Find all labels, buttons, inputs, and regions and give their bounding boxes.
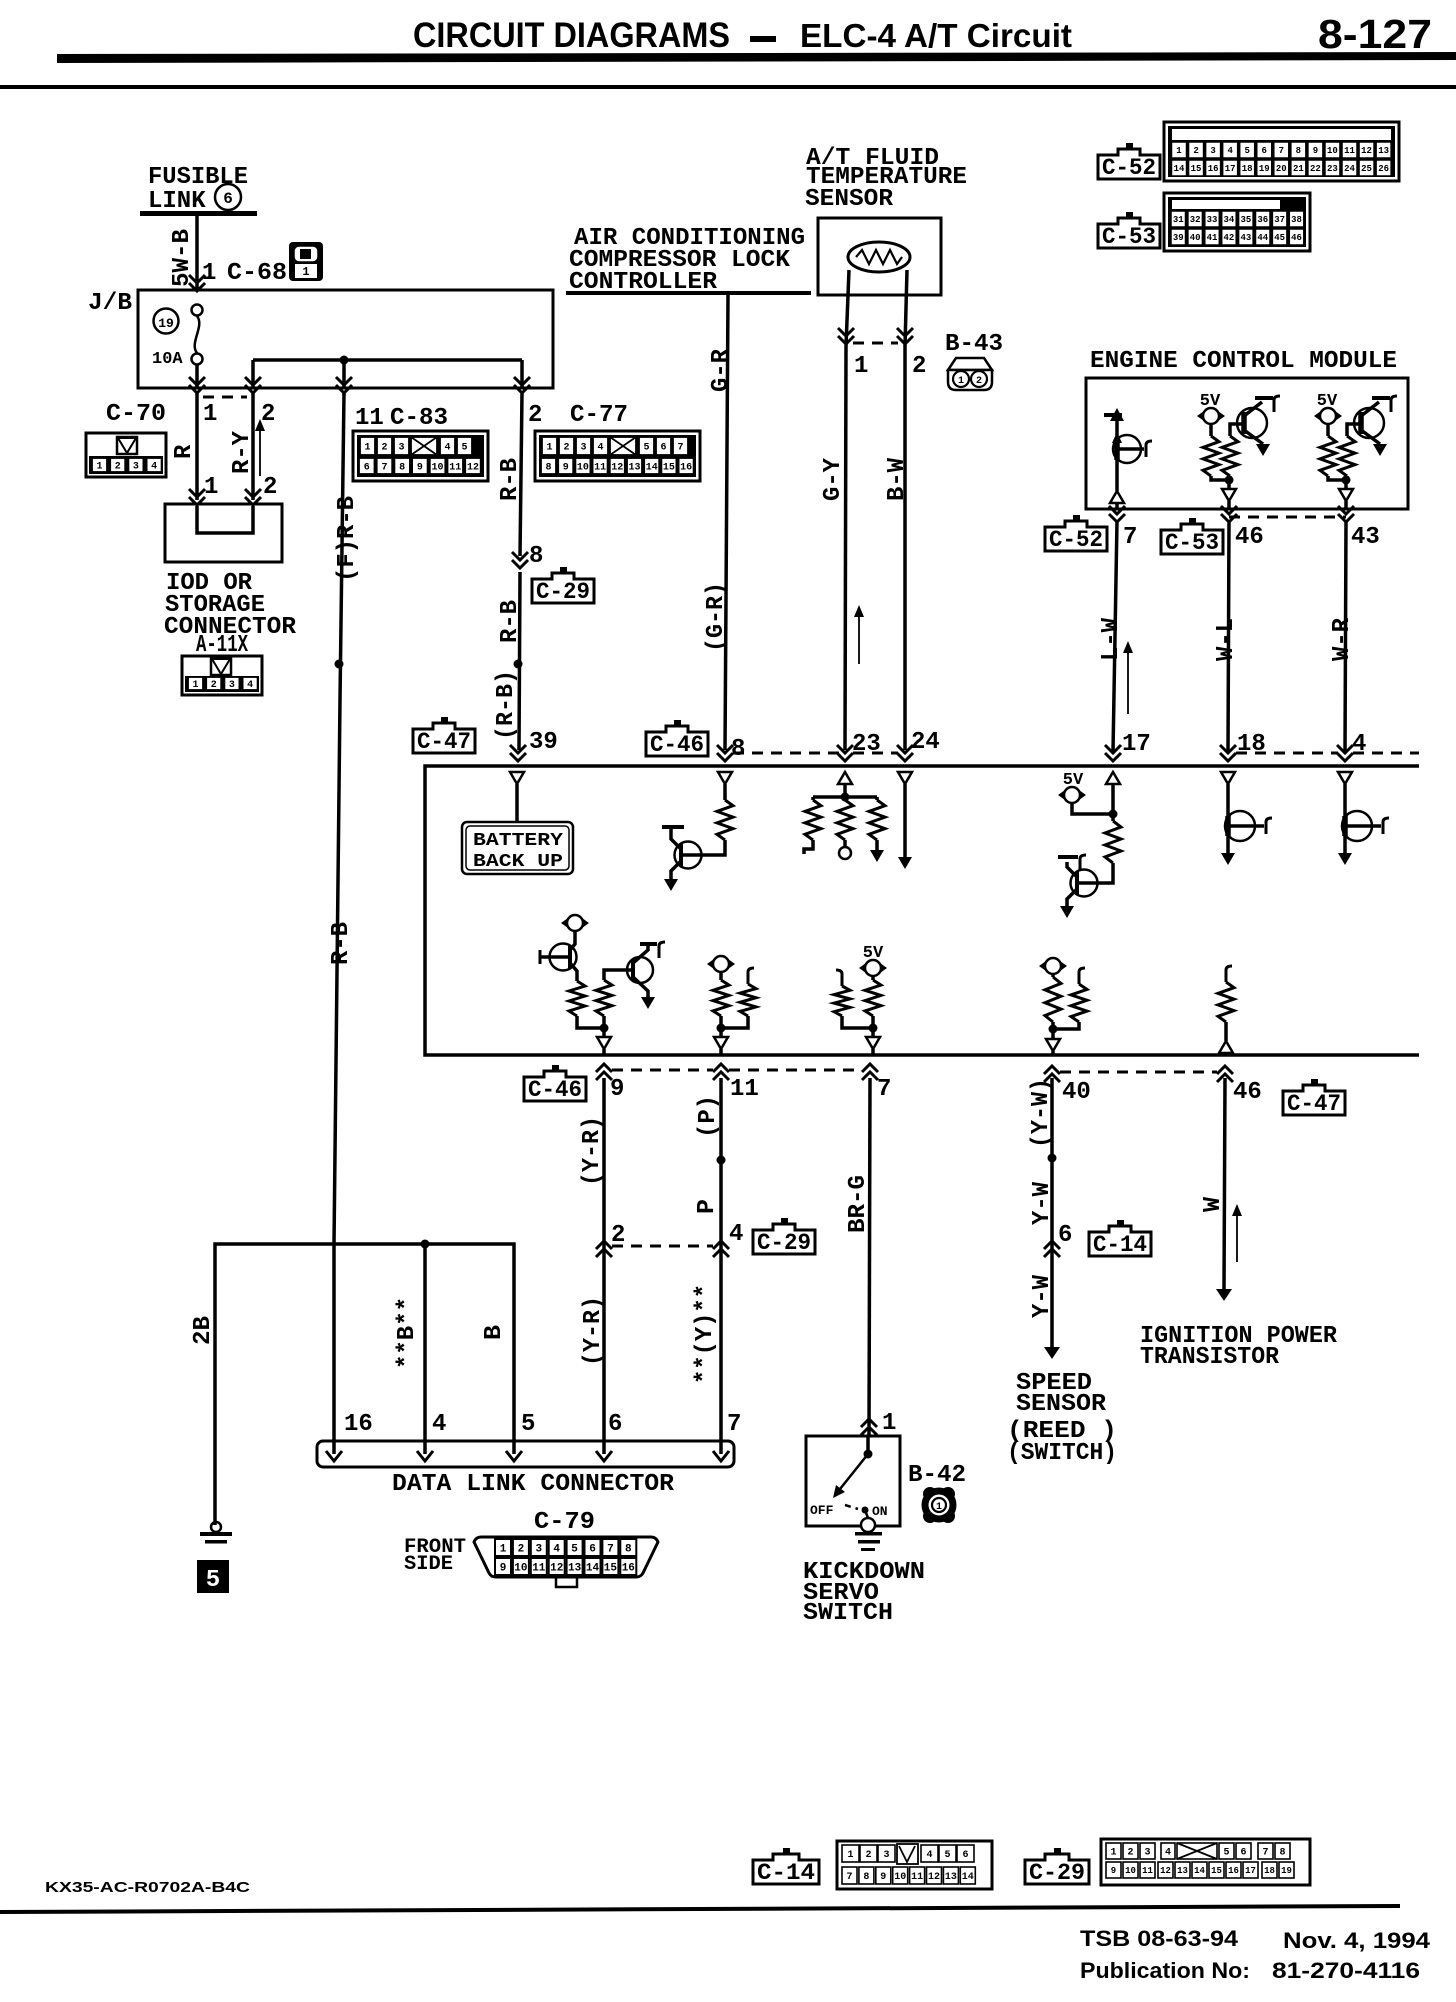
- svg-text:3: 3: [1210, 146, 1215, 156]
- ECU pin 8 triangle: [718, 772, 732, 784]
- ECU pin 9 triangle: [597, 1037, 611, 1055]
- svg-text:1: 1: [500, 1543, 507, 1555]
- ECM pin 7 node triangle: [1110, 491, 1124, 509]
- svg-text:R-B: R-B: [328, 922, 355, 965]
- direction arrow R-Y: [255, 419, 265, 476]
- svg-text:12: 12: [1361, 146, 1372, 156]
- svg-text:19: 19: [1281, 1866, 1292, 1876]
- svg-text:35: 35: [1240, 215, 1251, 225]
- svg-text:11: 11: [594, 463, 606, 474]
- connector C-47 label icon (top): [413, 717, 475, 755]
- resistor (pin 8 col): [717, 784, 733, 840]
- svg-text:1: 1: [192, 680, 198, 691]
- svg-text:2: 2: [912, 353, 926, 380]
- wire Y-W: [1050, 1078, 1054, 1348]
- svg-text:22: 22: [1310, 164, 1321, 174]
- svg-text:17: 17: [1122, 731, 1151, 758]
- connector C-29 label icon (bottom): [1025, 1848, 1089, 1886]
- direction arrow W: [1232, 1204, 1242, 1262]
- svg-text:C-79: C-79: [534, 1509, 595, 1536]
- wire BR-G: [869, 1078, 870, 1436]
- svg-text:2: 2: [381, 443, 387, 454]
- svg-text:10: 10: [1125, 1866, 1136, 1876]
- svg-text:BR-G: BR-G: [845, 1175, 872, 1233]
- svg-text:**B**: **B**: [394, 1297, 421, 1369]
- svg-text:2: 2: [211, 680, 217, 691]
- svg-text:6: 6: [608, 1411, 622, 1438]
- dashed tie pins 1-2: [203, 396, 247, 399]
- node pin 46b: [1233, 1079, 1262, 1106]
- svg-text:36: 36: [1257, 215, 1268, 225]
- label B-43: [945, 331, 1003, 358]
- thermistor symbol: [848, 242, 910, 272]
- connector C-14 label icon (bottom): [753, 1848, 819, 1886]
- svg-text:15: 15: [1191, 164, 1202, 174]
- svg-text:C-29: C-29: [1029, 1860, 1085, 1886]
- fuse 10A symbol: [192, 305, 203, 365]
- svg-text:32: 32: [1190, 215, 1201, 225]
- transistor Q3 (ECM): [1354, 396, 1397, 456]
- wire W: [1224, 1078, 1225, 1290]
- wire fuse to J/B bottom: [195, 365, 199, 388]
- connector C-83 icon: [353, 431, 488, 481]
- svg-text:5: 5: [571, 1543, 578, 1555]
- bus junction: [421, 1240, 430, 1249]
- svg-text:12: 12: [1160, 1866, 1171, 1876]
- svg-text:2: 2: [865, 1850, 871, 1861]
- 5V supply (pin7 col): [859, 960, 887, 976]
- svg-text:2: 2: [1193, 146, 1198, 156]
- resistor Ri (pin40): [1053, 968, 1087, 1029]
- svg-text:(Y-W): (Y-W): [1028, 1078, 1055, 1148]
- svg-text:1: 1: [364, 443, 370, 454]
- label (G-R): [703, 582, 730, 652]
- svg-text:17: 17: [1245, 1866, 1256, 1876]
- svg-text:5: 5: [1223, 1848, 1229, 1859]
- svg-text:C-52: C-52: [1049, 527, 1103, 553]
- pin 7 junction: [869, 1016, 878, 1037]
- node DLC pin 16: [344, 1411, 373, 1438]
- svg-text:8-127: 8-127: [1318, 11, 1432, 57]
- svg-text:C-46: C-46: [650, 732, 704, 758]
- svg-text:2: 2: [976, 376, 982, 387]
- svg-text:8: 8: [731, 736, 745, 763]
- node pin 17: [1122, 731, 1151, 758]
- svg-text:46: 46: [1235, 524, 1264, 551]
- svg-text:8: 8: [863, 1872, 869, 1883]
- ECU pin 46b arrow: [1217, 1066, 1233, 1082]
- svg-text:7: 7: [381, 463, 387, 474]
- svg-text:21: 21: [1293, 164, 1304, 174]
- svg-text:14: 14: [586, 1562, 600, 1574]
- svg-text:G-Y: G-Y: [820, 457, 847, 501]
- ground symbol (2B): [200, 1522, 232, 1544]
- A/C controller bus bar: [566, 291, 811, 295]
- junction block J/B box: [138, 290, 553, 388]
- wire 5V to junction: [1072, 803, 1113, 814]
- svg-text:LINK: LINK: [148, 188, 206, 215]
- pin 11 junction: [717, 1016, 726, 1037]
- label (Y-R) lower: [580, 1296, 607, 1366]
- svg-text:6: 6: [1058, 1222, 1072, 1249]
- ECU pin 17 triangle: [1106, 772, 1120, 784]
- connector C-68 pin 1 label: [202, 260, 287, 287]
- svg-text:12: 12: [611, 463, 623, 474]
- svg-text:13: 13: [1177, 1866, 1188, 1876]
- ground ref 5 box: [197, 1560, 229, 1594]
- label G-R: [708, 348, 735, 392]
- C-29 crossing arrow: [512, 552, 528, 568]
- node pin 24: [911, 729, 940, 756]
- svg-text:7: 7: [607, 1543, 614, 1555]
- 5V supply (ECM right): [1314, 408, 1342, 424]
- svg-text:8: 8: [545, 463, 551, 474]
- resistor R1 (ECM mid): [1203, 424, 1219, 476]
- wire R-Y: [251, 393, 255, 500]
- ECU pin 40 triangle: [1046, 1039, 1060, 1055]
- connector C-53 pin grid: [1164, 193, 1310, 251]
- wire sensor pin 2: [905, 270, 907, 346]
- label AIR CONDITIONING COMPRESSOR LOCK CONTROLLER: [569, 225, 805, 296]
- resistor R3 (ECM right): [1320, 424, 1336, 476]
- ignition power transistor arrow: [1216, 1289, 1232, 1301]
- svg-text:2: 2: [261, 401, 275, 428]
- svg-text:10: 10: [894, 1872, 906, 1883]
- pin 40 junction: [1049, 1022, 1058, 1039]
- svg-text:C-77: C-77: [570, 402, 628, 429]
- label BR-G: [845, 1175, 872, 1233]
- connector C-46 label icon (top): [646, 720, 708, 758]
- svg-text:9: 9: [1313, 146, 1318, 156]
- label (Y-W): [1028, 1078, 1055, 1148]
- label R-Y: [229, 430, 256, 474]
- switch common wire: [864, 1436, 873, 1459]
- connector C-47 label icon (bottom): [1283, 1079, 1345, 1117]
- svg-text:OFF: OFF: [810, 1503, 834, 1518]
- svg-text:13: 13: [1378, 146, 1389, 156]
- svg-text:Y-W: Y-W: [1029, 1274, 1056, 1318]
- label IGNITION POWER TRANSISTOR: [1140, 1323, 1338, 1371]
- pin 8 entry arrow: [717, 745, 733, 761]
- svg-text:KX35-AC-R0702A-B4C: KX35-AC-R0702A-B4C: [45, 1879, 250, 1896]
- ECM right junction: [1328, 476, 1351, 490]
- svg-text:5: 5: [521, 1411, 535, 1438]
- connector C-46 label icon (bottom): [524, 1065, 586, 1103]
- ECU pin 23 triangle: [838, 772, 852, 795]
- label A/T FLUID TEMPERATURE SENSOR: [805, 145, 967, 213]
- resistor Rd (pin11): [713, 971, 729, 1016]
- svg-text:14: 14: [962, 1872, 974, 1883]
- label B: [481, 1325, 508, 1340]
- 5V supply (pin9 col): [561, 915, 589, 931]
- svg-text:9: 9: [500, 1562, 507, 1574]
- svg-text:5: 5: [206, 1567, 220, 1594]
- ECM pin 43 node triangle: [1339, 489, 1353, 509]
- wire (Y-R): [602, 1078, 606, 1454]
- svg-text:13: 13: [568, 1562, 582, 1574]
- svg-text:3: 3: [535, 1543, 542, 1555]
- svg-text:7: 7: [677, 443, 683, 454]
- wire L-W: [1113, 521, 1117, 752]
- speed sensor arrow: [1044, 1347, 1060, 1359]
- svg-text:4: 4: [432, 1411, 446, 1438]
- svg-text:45: 45: [1274, 233, 1285, 243]
- label 10A: [152, 350, 183, 369]
- svg-text:13: 13: [628, 463, 640, 474]
- transistor Q5 (ECU): [1058, 855, 1098, 918]
- svg-text:TSB 08-63-94: TSB 08-63-94: [1080, 1926, 1239, 1951]
- fusible link bus bar: [140, 211, 257, 216]
- DATA LINK CONNECTOR box: [317, 1441, 734, 1467]
- svg-text:6: 6: [962, 1850, 968, 1861]
- svg-text:25: 25: [1361, 164, 1372, 174]
- resistor trio bus: [813, 795, 877, 799]
- DLC pin 16 arrow: [326, 1451, 342, 1461]
- svg-text:TRANSISTOR: TRANSISTOR: [1140, 1344, 1280, 1371]
- node pin 39: [529, 729, 558, 756]
- svg-text:1: 1: [204, 474, 218, 501]
- IOD OR STORAGE CONNECTOR box: [165, 504, 282, 562]
- IOD jumper pins 1-2: [197, 506, 253, 533]
- svg-text:ON: ON: [872, 1504, 888, 1519]
- svg-text:43: 43: [1240, 233, 1251, 243]
- ECU pin 7 triangle: [866, 1037, 880, 1055]
- svg-text:J/B: J/B: [88, 290, 132, 317]
- label B-42: [908, 1462, 966, 1489]
- label W: [1200, 1196, 1227, 1212]
- node pin 4: [1352, 731, 1366, 758]
- wire G-Y: [845, 346, 846, 750]
- svg-text:41: 41: [1207, 233, 1218, 243]
- resistor R2 (ECM mid): [1222, 424, 1242, 476]
- svg-text:40: 40: [1190, 233, 1201, 243]
- wire B-W: [903, 346, 907, 750]
- svg-text:6: 6: [223, 190, 233, 208]
- svg-text:4: 4: [926, 1850, 932, 1861]
- connector C-52 label icon (ECM): [1045, 515, 1107, 553]
- connector C-52 pin grid: [1164, 122, 1399, 181]
- switch dashed travel: [845, 1505, 858, 1509]
- svg-text:3: 3: [883, 1850, 889, 1861]
- node pin 18: [1237, 731, 1266, 758]
- svg-text:6: 6: [1262, 146, 1267, 156]
- label J/B: [88, 290, 132, 317]
- label C-79: [534, 1509, 595, 1536]
- direction arrow G-Y: [854, 605, 864, 664]
- label SPEED SENSOR REED SWITCH: [1007, 1370, 1117, 1467]
- node pin2 C-70: [261, 401, 275, 428]
- splice (F)R-B: [335, 660, 344, 669]
- svg-text:81-270-4116: 81-270-4116: [1272, 1958, 1420, 1983]
- wire 5W-B: [189, 214, 205, 291]
- label L-W: [1098, 617, 1125, 661]
- splice R-B: [514, 660, 523, 669]
- svg-text:C-53: C-53: [1165, 530, 1219, 556]
- transistor Q1 (ECM): [1104, 408, 1152, 491]
- svg-text:1: 1: [202, 260, 216, 287]
- earth ground (kickdown): [855, 1532, 882, 1551]
- label 5V (ECM mid): [1200, 392, 1221, 411]
- ECU pin 24 triangle: [898, 772, 912, 784]
- svg-text:C-52: C-52: [1102, 155, 1156, 181]
- svg-text:W: W: [1200, 1196, 1227, 1212]
- switch ON contact: [861, 1507, 875, 1533]
- label (R-B): [493, 670, 520, 740]
- label 5W-B: [169, 229, 196, 287]
- node sensor pin 1: [854, 353, 868, 380]
- svg-text:20: 20: [1276, 164, 1287, 174]
- label A-11X: [196, 632, 248, 659]
- header thick rule: [57, 52, 1456, 63]
- dashed tie 2-4: [612, 1245, 713, 1248]
- svg-text:14: 14: [1194, 1866, 1205, 1876]
- svg-text:DATA LINK CONNECTOR: DATA LINK CONNECTOR: [392, 1471, 675, 1498]
- label (Y-R) upper: [579, 1116, 606, 1186]
- label G-Y: [820, 457, 847, 501]
- svg-text:4: 4: [247, 680, 253, 691]
- ECM box: [1086, 378, 1408, 509]
- 5V supply (pin17): [1058, 787, 1086, 803]
- label 5V (pin7 col): [863, 944, 884, 963]
- svg-text:8: 8: [1279, 1848, 1285, 1859]
- node pin 8 C-29: [529, 543, 543, 570]
- ECU pin 39 triangle: [510, 772, 524, 784]
- resistor (pin17): [1105, 821, 1121, 863]
- label Y-W upper: [1029, 1181, 1056, 1225]
- dashed tie 8-23-24: [733, 752, 898, 755]
- pin 23 junction: [841, 793, 850, 802]
- pin 4 arrow: [713, 1241, 729, 1257]
- svg-text:17: 17: [1225, 164, 1236, 174]
- A/T fluid temp sensor box: [818, 218, 941, 295]
- svg-text:34: 34: [1224, 215, 1235, 225]
- svg-text:(SWITCH): (SWITCH): [1007, 1440, 1117, 1467]
- svg-text:C-29: C-29: [536, 579, 590, 605]
- svg-text:7: 7: [877, 1076, 891, 1103]
- pin 17 entry arrow: [1105, 745, 1121, 761]
- svg-text:2: 2: [528, 402, 542, 429]
- pullup symbol (pin40): [1039, 958, 1067, 974]
- svg-text:11: 11: [730, 1076, 759, 1103]
- DLC pin 4 arrow: [417, 1451, 433, 1461]
- svg-text:24: 24: [911, 729, 940, 756]
- svg-text:5: 5: [1244, 146, 1249, 156]
- svg-text:FUSIBLE: FUSIBLE: [148, 164, 248, 191]
- wire (P)/P: [719, 1078, 723, 1454]
- svg-text:SIDE: SIDE: [404, 1553, 453, 1576]
- node pin 9: [610, 1076, 624, 1103]
- ECU pin 40 arrow: [1044, 1066, 1060, 1082]
- svg-text:ELC-4 A/T Circuit: ELC-4 A/T Circuit: [800, 17, 1072, 54]
- transistor Q7 (ECU): [1338, 784, 1389, 865]
- ECM pin 7 arrow: [1109, 506, 1125, 522]
- svg-text:**(Y)**: **(Y)**: [692, 1284, 719, 1384]
- svg-text:R: R: [171, 444, 198, 459]
- svg-text:46: 46: [1233, 1079, 1262, 1106]
- connector C-29 icon (mid): [753, 1218, 815, 1256]
- wire W-L: [1228, 521, 1229, 752]
- svg-text:1: 1: [847, 1850, 853, 1861]
- svg-text:26: 26: [1378, 164, 1389, 174]
- ECU pin 4 triangle: [1338, 772, 1352, 784]
- label W-L: [1213, 618, 1240, 661]
- svg-text:5W-B: 5W-B: [169, 229, 196, 287]
- label **(Y)**: [692, 1284, 719, 1384]
- svg-text:14: 14: [646, 463, 658, 474]
- wire (F)R-B: [334, 393, 344, 1454]
- splice Y-W: [1048, 1154, 1057, 1163]
- svg-text:39: 39: [1173, 233, 1184, 243]
- transistor Q2 (ECM): [1237, 396, 1280, 456]
- connector C-53 label icon (top): [1098, 212, 1160, 250]
- ECU pin 7b arrow: [862, 1064, 878, 1080]
- kickdown pin 1 arrow: [861, 1419, 877, 1435]
- svg-text:4: 4: [1227, 146, 1233, 156]
- node DLC pin 4: [432, 1411, 446, 1438]
- resistor Ra (pin 23): [804, 797, 821, 854]
- svg-text:(P): (P): [695, 1095, 722, 1138]
- svg-text:B: B: [481, 1325, 508, 1340]
- svg-text:SENSOR: SENSOR: [805, 186, 894, 213]
- connector C-79 icon: [474, 1537, 658, 1587]
- label R-B mid: [497, 600, 524, 643]
- label ON: [872, 1504, 888, 1519]
- svg-text:R-B: R-B: [497, 458, 524, 501]
- wire resistor to Q4 base: [701, 840, 725, 855]
- svg-text:11: 11: [1344, 146, 1355, 156]
- wire R-B upper: [520, 393, 522, 556]
- node pin 43: [1351, 524, 1380, 551]
- svg-text:Nov. 4, 1994: Nov. 4, 1994: [1283, 1928, 1431, 1953]
- wire to battery backup: [515, 784, 519, 822]
- wire R-B mid: [519, 572, 520, 750]
- svg-text:SENSOR: SENSOR: [1016, 1391, 1107, 1418]
- svg-text:2B: 2B: [190, 1316, 217, 1345]
- svg-text:1: 1: [546, 443, 552, 454]
- svg-text:1: 1: [882, 1410, 896, 1437]
- svg-text:1: 1: [203, 401, 217, 428]
- footer TSB number: [1080, 1926, 1239, 1951]
- svg-text:7: 7: [1279, 146, 1284, 156]
- resistor (Q9 base): [596, 980, 612, 1016]
- node pin1 IOD: [204, 474, 218, 501]
- pullup symbol (pin11): [707, 956, 735, 972]
- ground bus 2B: [215, 1244, 514, 1525]
- dashed tie 46-43: [1229, 516, 1346, 519]
- svg-text:16: 16: [680, 463, 692, 474]
- svg-text:18: 18: [1242, 164, 1253, 174]
- label FRONT SIDE: [404, 1536, 466, 1576]
- pin 39 entry arrow: [510, 745, 526, 761]
- wire resistor to Q5: [1097, 863, 1113, 883]
- svg-text:1: 1: [958, 376, 964, 387]
- label (F)R-B: [334, 496, 361, 582]
- connector C-52 label icon (top): [1098, 143, 1160, 181]
- node pin 2: [611, 1222, 625, 1249]
- svg-text:2: 2: [115, 462, 121, 473]
- svg-text:C-53: C-53: [1102, 224, 1156, 250]
- dashed tie 18-4 and beyond: [1236, 752, 1419, 755]
- svg-text:3: 3: [398, 443, 404, 454]
- svg-text:B-42: B-42: [908, 1462, 966, 1489]
- connector B-42 icon: [923, 1487, 955, 1523]
- ECU pin 11 triangle: [714, 1037, 728, 1055]
- svg-text:4: 4: [553, 1543, 560, 1555]
- svg-text:9: 9: [563, 463, 569, 474]
- svg-text:1: 1: [1110, 1848, 1116, 1859]
- svg-text:39: 39: [529, 729, 558, 756]
- wire R: [195, 393, 199, 500]
